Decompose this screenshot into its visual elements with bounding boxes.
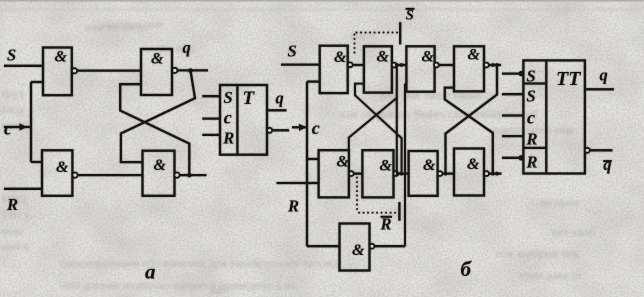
svg-text:нии довами индdavaо напpiece п: нии довами индdavaо напpiece приведено а… xyxy=(60,278,296,292)
svg-text:вход: вход xyxy=(1,102,24,116)
svg-text:ний с: ний с xyxy=(1,239,29,253)
svg-text:труд: труд xyxy=(1,86,24,100)
svg-text:нет пваб: нет пваб xyxy=(552,225,595,239)
svg-text:стан даяя эт: стан даяя эт xyxy=(520,268,582,282)
svg-text:ианlibus шат: ианlibus шат xyxy=(100,17,165,31)
svg-text:пиодиционвано обозначение для: пиодиционвано обозначение для тактируемо… xyxy=(60,256,339,270)
svg-text:нова: нова xyxy=(1,224,25,238)
svg-text:не прои: не прои xyxy=(540,195,580,209)
svg-text:или которые нек: или которые нек xyxy=(495,246,579,260)
svg-text:ват: ват xyxy=(210,283,227,297)
